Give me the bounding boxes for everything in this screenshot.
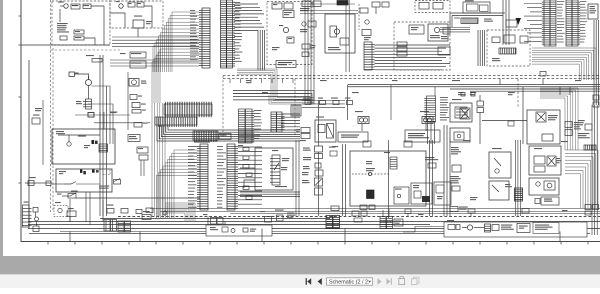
connector strip CN-A [190, 8, 210, 68]
component pair 210 [211, 218, 224, 225]
small parts top q2 [372, 2, 389, 14]
wire fan CN-B right [235, 4, 264, 30]
first page button [306, 278, 312, 285]
wire pair x141 [141, 160, 144, 176]
wire W15 [240, 167, 255, 169]
new window icon (disabled) [399, 277, 405, 285]
switch S1 [71, 4, 80, 9]
sheet border bottom [21, 241, 600, 243]
wire bundle below pilot [240, 192, 300, 196]
bus drop 5 [500, 79, 560, 96]
bottom bus dashed [118, 216, 600, 218]
small parts left-mid q2 [302, 44, 315, 57]
bottom enclosure left [206, 225, 272, 236]
monitor feed wires [75, 112, 130, 130]
monitor bottom labels [99, 186, 109, 189]
solenoid connector stub 1 [363, 141, 371, 147]
relay KB [139, 155, 148, 160]
solenoid SV1 [355, 111, 369, 131]
battery disconnect switch S3 [25, 177, 36, 186]
motor M3 [462, 225, 484, 230]
controller box small [463, 0, 490, 13]
page select dropdown [327, 278, 373, 286]
wire W2 [84, 38, 95, 45]
wire fan CN-F left [156, 150, 197, 218]
label left rail [35, 108, 42, 111]
wire top runs [300, 4, 358, 14]
dashed box relay bank [487, 30, 530, 66]
monitor gauge G1 [58, 135, 100, 146]
labels left switch boxes [450, 147, 461, 191]
wire left vertical 43 [42, 100, 44, 165]
wire W13 [69, 199, 71, 222]
label 24V [484, 19, 493, 22]
wire W5 [36, 182, 52, 184]
relay in left enclosure [222, 227, 228, 232]
resistor box RB1 [535, 197, 559, 205]
wire W8 [94, 122, 150, 124]
power bus extra lines [450, 89, 600, 91]
drops to frame [70, 229, 560, 242]
sender B4 [134, 123, 147, 128]
flow arrow marker [516, 18, 522, 25]
solenoid connector stub 2 [404, 141, 412, 147]
labels col 578-592 [578, 120, 592, 138]
small box 277 with label [275, 210, 284, 222]
module B with relay [428, 24, 448, 41]
left drop wires [29, 200, 103, 222]
bottom bus upper 2 [160, 211, 600, 213]
label box 533 [533, 223, 559, 234]
inline connector pair bottom [447, 220, 460, 230]
dashed enclosure cab console [52, 1, 110, 45]
ECU aux box [588, 4, 598, 19]
pressure switch box PS3 [489, 181, 512, 200]
controller drop bundle [478, 30, 485, 66]
fuse F5 [333, 101, 339, 105]
dashed link [352, 172, 390, 175]
solenoid box SB1 [529, 146, 561, 175]
fuse F4 [320, 101, 326, 105]
power bus pair [348, 85, 600, 87]
resistor network RN1 [291, 105, 301, 116]
box 517 [517, 224, 530, 233]
diode D1 [60, 36, 67, 40]
right edge trunk [592, 20, 598, 235]
bus drop 2 [522, 87, 524, 110]
label ignition [75, 73, 79, 74]
pilot control switch box [255, 148, 293, 190]
motor M4 [231, 229, 235, 233]
monitor inner labels [56, 131, 86, 137]
bottom bus upper 3 [230, 213, 600, 215]
ECU connector strip CN-J [542, 0, 565, 46]
inline comp row [106, 205, 167, 220]
marks in left enclosure [243, 228, 256, 232]
sensor B1 [130, 95, 142, 100]
bottom bus short [100, 218, 330, 220]
diode block D2 [287, 37, 294, 43]
dark block pair 325 [326, 216, 340, 229]
ECU feed wires [524, 4, 542, 42]
wire W16 [244, 180, 255, 188]
pressure sender box [482, 110, 560, 144]
solenoid SV2 [420, 111, 433, 131]
relay K2 [116, 1, 123, 8]
pin block dark [515, 188, 523, 201]
harness dashed crossbar [51, 49, 123, 51]
indicator lamp L3 [92, 170, 99, 173]
pressure switch box PS2 [489, 148, 511, 178]
dark module [337, 1, 348, 6]
wire gauge rail [127, 72, 129, 130]
wire bundle CN-B down [237, 69, 277, 95]
trunk pair x343 [343, 144, 346, 216]
pilot switch internals [270, 155, 289, 185]
switch S5 [62, 191, 78, 197]
wire staircase right-mid [540, 88, 578, 150]
viewer background left strip [0, 0, 3, 256]
dense pin strip pair [380, 217, 393, 229]
wire bus mid-right [233, 91, 310, 100]
controller drop trunk [503, 0, 509, 45]
indicator lamp L1 [80, 170, 82, 173]
labels right mid [458, 92, 476, 96]
dashed box top edge [415, 1, 450, 13]
relay assembly box [315, 117, 336, 143]
label MAIN [59, 171, 66, 174]
navigation toolbar [0, 274, 600, 288]
wire bus mid drop [233, 91, 314, 105]
connector CN-E [219, 134, 231, 140]
harness bus drops [230, 79, 293, 84]
connector strip CN-F [188, 144, 208, 210]
lamp E1 [128, 135, 140, 142]
wire W3 [110, 13, 125, 28]
bus drop 1 [348, 85, 436, 121]
dashed enclosure right-mid [394, 22, 450, 70]
fuse F6 [347, 101, 353, 105]
inner box governor [411, 183, 432, 204]
regulator box [450, 128, 470, 142]
bottom bundle convergence [165, 203, 195, 221]
switch S4 lever [64, 182, 100, 185]
wire W12 [85, 192, 87, 222]
fusible link FL1 [46, 181, 51, 186]
enclosure drop wires [208, 217, 225, 226]
inner box timer [394, 187, 409, 204]
bus drop 4 [569, 87, 571, 95]
label in left enclosure [210, 227, 218, 230]
wire fan CN-A trunk down [152, 103, 165, 216]
wiper motor M2 [67, 208, 76, 217]
CN-H bottom stubs [428, 122, 435, 144]
wire trunk pair [100, 55, 107, 216]
fuse row FB1 [272, 3, 293, 9]
bottom bus line 4 [60, 231, 560, 233]
capacitor C1 [74, 36, 84, 40]
connector P4 small [32, 115, 40, 125]
connector CN-L vertical [364, 42, 375, 70]
label control box [366, 161, 372, 164]
dashed box washer pump [54, 202, 68, 217]
harness stub top [359, 4, 371, 40]
switch S2 [128, 2, 135, 7]
relay dark module B [367, 190, 375, 199]
fuse F3 [305, 101, 311, 105]
SE corner fan [565, 150, 598, 208]
pressure switch X-box [460, 108, 470, 119]
strip exit fan right [157, 125, 300, 141]
dashed indicator box [103, 169, 110, 175]
relay bank parts [492, 35, 528, 61]
relay K8 [302, 170, 323, 176]
wire W9 [92, 86, 111, 144]
diode D3 [303, 163, 321, 169]
valve block label box 1 [338, 132, 368, 142]
wire W1 [91, 6, 104, 45]
label block 288 [287, 213, 295, 218]
relay K3 [133, 16, 144, 38]
terminal strip TS2 [155, 117, 197, 127]
connector CN-D [193, 131, 218, 143]
connector P6 4-pin [76, 99, 92, 109]
connector CB1 [120, 52, 146, 58]
wire W6 [88, 86, 90, 100]
hour meter M1 [129, 79, 147, 87]
sender B3 [132, 110, 146, 114]
connector strip module A [384, 152, 397, 169]
top right small pins [584, 145, 596, 150]
labels mid control box [366, 168, 375, 171]
dashed enclosure radio box [110, 1, 163, 28]
trunk pair 515 [516, 140, 521, 216]
box 395 [394, 219, 403, 226]
fuse F2 [137, 2, 144, 7]
controller left parts [440, 28, 470, 40]
small cluster [300, 21, 316, 32]
relay K1 [58, 2, 68, 9]
connector CN-M pair [118, 221, 131, 232]
dashed enclosure fuse box [267, 2, 312, 65]
switch S6 [114, 179, 121, 185]
sheet border zone ticks [48, 242, 588, 245]
switch panel box [276, 61, 296, 68]
right edge column parts [593, 95, 599, 107]
wire fan CN-L [375, 45, 451, 70]
module C [438, 47, 450, 55]
connector strip CN-B double [221, 0, 243, 68]
bottom bus line 5 [29, 233, 590, 235]
controller wire loops [450, 13, 505, 27]
connector P5 [23, 202, 32, 228]
next page button (disabled) [378, 278, 382, 284]
labels right of control box [425, 157, 438, 168]
sensor label box [329, 147, 337, 157]
connector strip CN-G [217, 144, 238, 210]
ECU connector strip CN-K [566, 0, 587, 46]
solenoid box SB2 [529, 178, 559, 195]
wire vertical x388 [388, 140, 390, 218]
relay K6 [303, 146, 323, 152]
component cluster NW of center [300, 1, 321, 11]
monitor dark pair [92, 140, 98, 144]
horn H1 [33, 208, 39, 232]
harness vertical dashed center [222, 76, 224, 139]
inner box controller [434, 182, 451, 205]
label K3 terminals [146, 21, 152, 24]
labels col 563-575 [565, 122, 581, 136]
monitor panel upper box [52, 129, 115, 164]
label small 92 [86, 55, 102, 62]
indicator lamp L2 [83, 171, 85, 174]
relay KA [137, 147, 148, 153]
previous page button [318, 278, 322, 285]
stub connectors right fan [243, 148, 252, 200]
scatter labels B [238, 140, 568, 200]
sensor B2 [132, 103, 146, 108]
sheet border left [20, 0, 22, 242]
scatter labels C [155, 210, 568, 219]
feeder horizontals [302, 101, 345, 108]
bottom bus line 1 [28, 221, 600, 223]
controller pin comb [461, 18, 478, 24]
wire left rail [28, 60, 30, 228]
connector strip CN-N pair [239, 109, 262, 143]
connector CN-C pair [271, 112, 285, 132]
wire runs y60 [110, 60, 199, 66]
relay K7 [303, 154, 323, 161]
fuse F1 [83, 4, 91, 9]
ECU exit fan [532, 48, 596, 80]
diode pair DP1 [477, 95, 484, 144]
wire center column rail [318, 100, 320, 216]
label block wire colors [57, 23, 69, 33]
pressure switch PS1 [302, 178, 323, 186]
wire y198 [76, 197, 200, 199]
wire fan CN-G right [238, 147, 262, 204]
bottom rail comps right [331, 205, 599, 217]
wire fan CN-C right [281, 114, 300, 127]
resistor R1 [74, 30, 84, 34]
wire bundle CN-B fan drop [258, 30, 265, 70]
ignition switch SW1 [69, 72, 92, 86]
relay K5 [283, 11, 294, 18]
wire runs into CN-A [112, 37, 199, 47]
monitor connector [84, 144, 108, 152]
relay contacts stack [397, 42, 407, 56]
duplicate icon (disabled) [412, 277, 419, 284]
bottom bus line 3 [28, 228, 600, 230]
scatter labels A [246, 80, 581, 95]
bottom feed wire [403, 227, 444, 233]
alternator box [450, 99, 472, 122]
label fuse box [272, 47, 280, 50]
sheet tick marks left [19, 16, 22, 183]
terminal strip TS1 [164, 102, 212, 117]
wire W14 [89, 192, 91, 225]
wire trunk right-center [444, 125, 450, 216]
wire pair x430 [430, 140, 433, 216]
flasher unit U2 [279, 25, 289, 33]
bus drop 3 [540, 72, 546, 85]
long bottom enclosure [444, 222, 587, 237]
relay column small [296, 128, 310, 139]
wire harness top-left run [21, 9, 110, 45]
wire W4 [144, 6, 152, 28]
box left of arrow [506, 20, 517, 27]
bottom bus upper 1 [150, 208, 600, 210]
valve block label box 2 [405, 130, 440, 142]
harness dashed pair left [51, 0, 54, 212]
wire pair x296 [296, 140, 299, 216]
module A [409, 25, 424, 34]
svg-text:Schematic (2 / 2:: Schematic (2 / 2: [329, 280, 369, 286]
relay K4 [88, 112, 116, 117]
wire fan CN-A left [152, 12, 199, 103]
junction box pair JB1 [104, 220, 117, 232]
small box 265 [265, 217, 272, 223]
wire crossing to bus [269, 95, 314, 104]
viewer background band below page [0, 256, 600, 274]
pump connector [485, 224, 500, 232]
cab junction enclosure [325, 14, 355, 53]
wire W10 [88, 104, 113, 144]
label rows bottom right [501, 225, 514, 230]
connector CB2 [130, 61, 146, 68]
comps above pin pair [352, 209, 389, 223]
monitor panel lower box [56, 169, 112, 192]
label pilot box [272, 150, 287, 187]
relay K9 [315, 188, 323, 195]
wire W11 [52, 183, 64, 185]
last page button (disabled) [387, 278, 392, 284]
bottom bus line 2 [28, 224, 430, 226]
label gnd [57, 194, 76, 199]
harness vertical dashed mid [295, 79, 518, 136]
connector strip CN-H [424, 96, 449, 122]
fuse labels row [303, 98, 350, 99]
vertical trunk 305-315 [305, 0, 314, 100]
harness dashed bus pair [223, 76, 600, 79]
vertical trunk 345-350 [346, 0, 349, 72]
control box main [350, 151, 426, 206]
